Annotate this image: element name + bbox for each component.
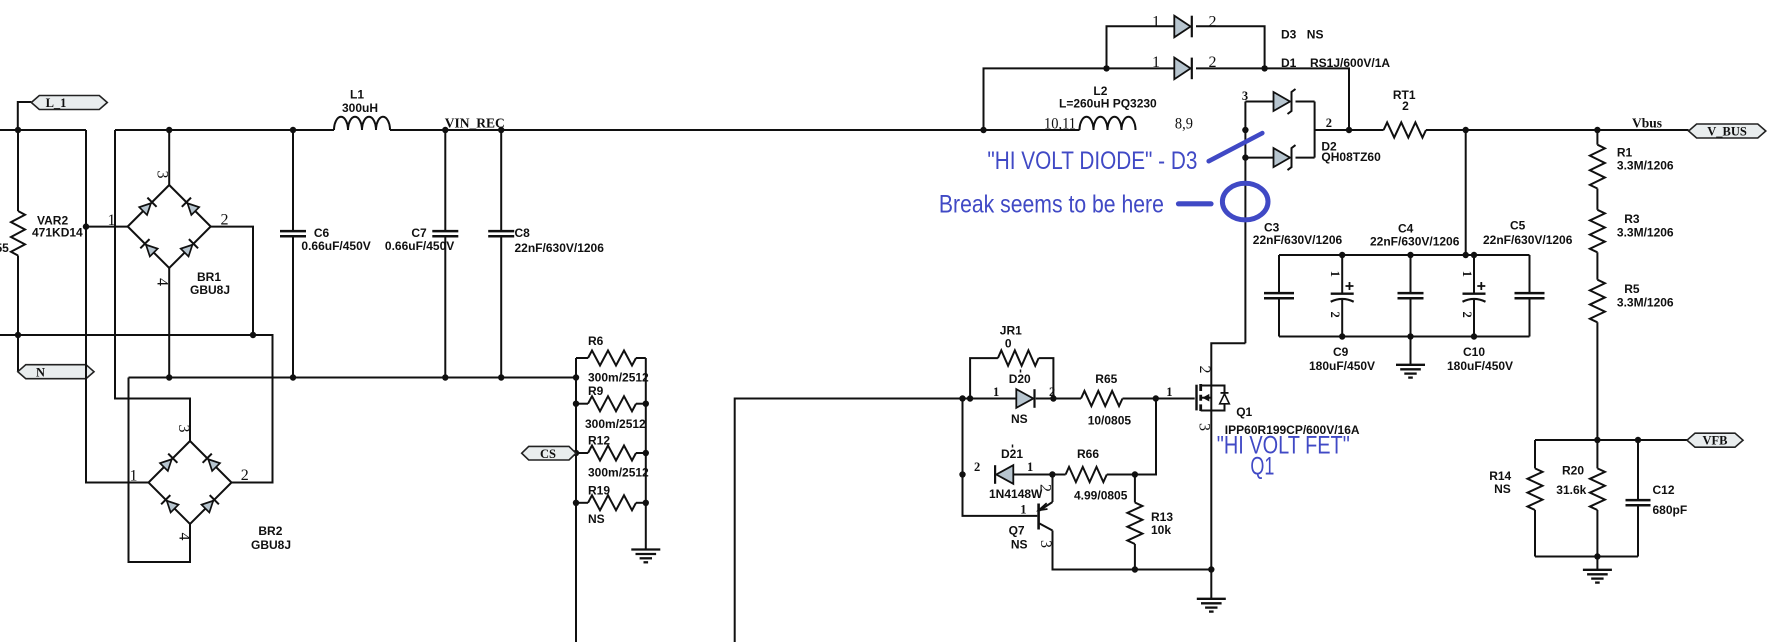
svg-text:10/0805: 10/0805	[1088, 414, 1132, 428]
svg-text:10k: 10k	[1151, 523, 1171, 537]
junction GND rail Q1	[1208, 566, 1214, 572]
svg-text:R20: R20	[1562, 464, 1584, 478]
wire D2 top join	[1296, 101, 1315, 103]
label L1	[342, 88, 378, 116]
svg-text:D20: D20	[1009, 372, 1031, 386]
junction R13 bottom	[1132, 566, 1138, 572]
label R5	[1617, 282, 1674, 310]
junction R20 bottom	[1594, 553, 1600, 559]
wire bus to BR2 pin 3	[115, 130, 190, 441]
wire gate drive feed	[735, 399, 1016, 642]
svg-text:22nF/630V/1206: 22nF/630V/1206	[1370, 235, 1460, 249]
svg-text:R14: R14	[1489, 469, 1511, 483]
svg-text:Q7: Q7	[1009, 524, 1025, 538]
svg-text:BR1: BR1	[197, 270, 221, 284]
label R6	[588, 334, 649, 385]
bridge BR2 outline	[149, 441, 232, 524]
label D21	[989, 445, 1043, 502]
svg-text:D1: D1	[1281, 56, 1297, 70]
capacitor C9	[1331, 255, 1354, 337]
bridge BR1 diode 2-3	[182, 198, 200, 216]
pin 10,11 L2	[1044, 116, 1076, 133]
pin 2 C10	[1460, 312, 1474, 318]
junction D1 branch	[980, 127, 986, 133]
bridge BR1 outline	[128, 185, 211, 268]
tag L_1	[31, 96, 107, 111]
diode D2 bottom half	[1245, 145, 1295, 170]
wire D2 bottom join	[1296, 157, 1315, 159]
junction C9 bottom	[1339, 333, 1345, 339]
pin 1 C10	[1460, 271, 1474, 277]
resistor R12	[576, 446, 646, 461]
svg-text:2: 2	[221, 212, 229, 229]
svg-text:L=260uH PQ3230: L=260uH PQ3230	[1059, 97, 1157, 111]
diode D3	[1174, 16, 1192, 38]
wire BR2 pin 4 loop	[129, 378, 191, 563]
capacitor C8	[488, 130, 514, 378]
svg-text:4: 4	[176, 533, 193, 541]
wire cap bank top	[1279, 254, 1530, 256]
svg-text:R66: R66	[1077, 447, 1099, 461]
svg-text:C4: C4	[1398, 222, 1414, 236]
svg-text:1: 1	[1152, 54, 1160, 71]
svg-text:NS: NS	[1307, 28, 1324, 42]
svg-text:55: 55	[0, 241, 9, 255]
annotation slash	[1209, 133, 1263, 161]
junction RT1 out	[1463, 127, 1469, 133]
pin 4 BR1	[154, 278, 171, 286]
ground under ladder	[631, 550, 660, 563]
pin 1 BR1	[108, 212, 116, 229]
pin 2 D1	[1209, 54, 1217, 71]
svg-text:R3: R3	[1624, 212, 1640, 226]
svg-text:C10: C10	[1463, 345, 1485, 359]
svg-text:VIN_REC: VIN_REC	[445, 116, 505, 131]
wire VFB bottom rail	[1535, 556, 1638, 558]
text fragment 55	[0, 241, 9, 255]
wire VFB row	[1535, 439, 1688, 441]
svg-text:1: 1	[1152, 14, 1160, 31]
wire L_1 tag stub	[18, 102, 32, 130]
wire ladder left vertical	[575, 358, 577, 642]
wire ladder right vertical	[645, 358, 647, 550]
svg-text:2: 2	[1037, 484, 1054, 492]
label Q1	[1225, 405, 1360, 437]
net label Vbus	[1632, 116, 1662, 131]
svg-text:2: 2	[1209, 14, 1217, 31]
ground under Q1	[1197, 570, 1226, 612]
junction Vbus/R1	[1594, 127, 1600, 133]
label R1	[1617, 146, 1674, 173]
pin 2 Q1	[1196, 366, 1213, 374]
label C9	[1309, 345, 1375, 373]
label C5	[1483, 219, 1573, 248]
plus C10	[1477, 282, 1485, 290]
resistor R1	[1590, 130, 1605, 210]
pin 2 D20	[1049, 385, 1055, 399]
label C8	[515, 226, 605, 255]
svg-text:NS: NS	[1494, 482, 1511, 496]
resistor JR1	[970, 350, 1053, 398]
svg-text:Q1: Q1	[1250, 453, 1274, 481]
svg-text:C5: C5	[1510, 219, 1526, 233]
svg-text:C12: C12	[1653, 483, 1675, 497]
wire cap bank bottom	[1279, 336, 1530, 338]
annotation text HI VOLT DIODE	[987, 147, 1197, 175]
pin 2 D2	[1326, 116, 1332, 130]
svg-text:3: 3	[1242, 89, 1248, 103]
junction ladder top-left	[573, 374, 579, 380]
transistor Q1	[1197, 384, 1230, 411]
svg-text:10,11: 10,11	[1044, 116, 1076, 133]
tag N	[18, 365, 94, 380]
plus C9	[1346, 282, 1354, 290]
resistor R14	[1528, 440, 1543, 557]
capacitor C7	[432, 130, 458, 378]
junction gate node	[1153, 395, 1159, 401]
svg-text:2: 2	[1460, 312, 1474, 318]
pin 4 BR2	[176, 533, 193, 541]
svg-text:2: 2	[1326, 116, 1332, 130]
wire drain to D2 node	[1244, 102, 1246, 344]
label R19	[588, 484, 610, 527]
junction Q7 collector node	[1049, 471, 1055, 477]
svg-text:2: 2	[974, 460, 980, 474]
annotation ellipse	[1222, 183, 1268, 220]
junction C4 bottom	[1407, 333, 1413, 339]
svg-text:L1: L1	[350, 88, 364, 102]
svg-text:1N4148W: 1N4148W	[989, 487, 1043, 501]
label R3	[1617, 212, 1674, 240]
label BR2	[251, 524, 291, 552]
label VAR2	[32, 214, 83, 240]
svg-text:1: 1	[1460, 271, 1474, 277]
label D2	[1321, 140, 1381, 165]
svg-text:22nF/630V/1206: 22nF/630V/1206	[515, 241, 605, 255]
junction R19 left	[573, 500, 579, 506]
svg-text:CS: CS	[540, 447, 556, 461]
wire RT1 down to caps	[1465, 130, 1467, 255]
bridge BR2 diode 4-1	[161, 495, 179, 513]
junction D2 lower	[1242, 154, 1248, 160]
svg-text:471KD14: 471KD14	[32, 226, 83, 240]
wire BR1 pin 2	[211, 227, 254, 335]
junction R12 left	[573, 450, 579, 456]
svg-text:QH08TZ60: QH08TZ60	[1321, 150, 1381, 164]
svg-text:2: 2	[1049, 385, 1055, 399]
svg-text:2: 2	[1328, 312, 1342, 318]
pin 2 C9	[1328, 312, 1342, 318]
svg-text:3.3M/1206: 3.3M/1206	[1617, 159, 1674, 173]
svg-text:31.6k: 31.6k	[1556, 483, 1586, 497]
svg-text:300uH: 300uH	[342, 101, 378, 115]
junction C8 bottom	[498, 374, 504, 380]
svg-text:300m/2512: 300m/2512	[585, 417, 646, 431]
pin 2 BR1	[221, 212, 229, 229]
wire D2 to RT1	[1315, 129, 1384, 131]
capacitor C10	[1463, 255, 1486, 337]
svg-text:2: 2	[1196, 366, 1213, 374]
diode D21	[995, 465, 1013, 484]
svg-text:Break seems to be here: Break seems to be here	[939, 191, 1164, 219]
svg-text:0: 0	[1005, 337, 1012, 351]
svg-text:3.3M/1206: 3.3M/1206	[1617, 296, 1674, 310]
pin 3 D2	[1242, 89, 1248, 103]
junction C12 top	[1635, 437, 1641, 443]
wire net N horizontal	[0, 335, 273, 483]
transistor Q7	[1039, 475, 1212, 570]
resistor R5	[1590, 280, 1605, 440]
wire main bus to L1	[115, 129, 334, 131]
svg-text:3: 3	[1037, 540, 1054, 548]
svg-text:R6: R6	[588, 334, 604, 348]
svg-text:R12: R12	[588, 434, 610, 448]
junction D1 to bus	[1346, 127, 1352, 133]
svg-text:22nF/630V/1206: 22nF/630V/1206	[1483, 233, 1573, 247]
svg-text:2: 2	[241, 467, 249, 484]
svg-text:NS: NS	[588, 512, 605, 526]
svg-text:Vbus: Vbus	[1632, 116, 1662, 131]
label D1 RS1J	[1281, 56, 1390, 70]
svg-text:Q1: Q1	[1236, 405, 1252, 419]
resistor R19	[576, 495, 646, 510]
tag VFB	[1687, 433, 1743, 448]
svg-text:D21: D21	[1001, 447, 1023, 461]
svg-text:C6: C6	[314, 226, 330, 240]
label R14	[1489, 469, 1511, 496]
svg-text:VFB: VFB	[1703, 434, 1728, 448]
pin 1 D1	[1152, 54, 1160, 71]
junction RT1 cap top	[1463, 252, 1469, 258]
junction C6 bottom	[290, 374, 296, 380]
svg-text:4.99/0805: 4.99/0805	[1074, 489, 1128, 503]
junction R12 right	[643, 450, 649, 456]
svg-text:R19: R19	[588, 484, 610, 498]
varistor VAR2	[11, 130, 25, 335]
pin 1 D20	[993, 385, 999, 399]
label L2	[1059, 84, 1157, 111]
label RT1	[1393, 88, 1416, 113]
capacitor C5	[1515, 255, 1545, 337]
label R13	[1151, 510, 1173, 537]
annotation text Q1 blue	[1250, 453, 1274, 481]
label R12	[588, 434, 649, 480]
svg-text:"HI VOLT FET": "HI VOLT FET"	[1217, 432, 1350, 460]
svg-text:3: 3	[154, 171, 171, 179]
resistor R6	[576, 351, 646, 366]
diode D1	[1174, 58, 1192, 80]
net label VIN_REC	[445, 116, 505, 131]
junction D21 branch	[959, 395, 965, 401]
svg-text:1: 1	[1166, 385, 1172, 399]
pin 1 BR2	[130, 468, 138, 485]
pin 2 D21	[974, 460, 980, 474]
label C4	[1370, 222, 1460, 249]
wire L_1 down to BR1 pin 1	[86, 130, 128, 227]
bridge BR2 diode 2-3	[203, 454, 221, 472]
bridge BR2 diode 1-3	[159, 454, 177, 472]
junction C7 top	[442, 127, 448, 133]
svg-text:C9: C9	[1333, 345, 1349, 359]
svg-text:V_BUS: V_BUS	[1707, 125, 1747, 139]
junction C8 top	[498, 127, 504, 133]
svg-text:3: 3	[175, 425, 192, 433]
svg-text:180uF/450V: 180uF/450V	[1447, 359, 1513, 373]
tag CS	[522, 446, 576, 461]
label R65	[1088, 372, 1132, 428]
junction L_1/VAR2	[15, 127, 21, 133]
junction JR1 branch left	[967, 395, 973, 401]
resistor R20	[1590, 440, 1605, 557]
junction D21 pin2	[959, 471, 965, 477]
junction R13 top	[1132, 471, 1138, 477]
junction C4 top	[1407, 252, 1413, 258]
wire BR1 pin 3	[168, 130, 170, 185]
svg-text:NS: NS	[1011, 412, 1028, 426]
svg-text:"HI VOLT DIODE" - D3: "HI VOLT DIODE" - D3	[987, 147, 1197, 175]
label R9	[585, 384, 646, 431]
resistor R9	[576, 396, 646, 411]
wire BR1 pin 4	[168, 268, 170, 378]
svg-text:R9: R9	[588, 384, 604, 398]
pin 3 Q1	[1196, 423, 1213, 431]
svg-text:GBU8J: GBU8J	[251, 538, 291, 552]
junction VAR2/N	[15, 332, 21, 338]
junction C10 top	[1471, 252, 1477, 258]
wire R65 to gate	[1123, 398, 1195, 400]
junction C6 top	[290, 127, 296, 133]
diode D20	[1016, 389, 1034, 408]
svg-text:C7: C7	[411, 226, 427, 240]
wire Q1 source	[1210, 411, 1212, 570]
capacitor C3	[1264, 255, 1294, 337]
annotation text HI VOLT FET	[1217, 432, 1350, 460]
wire D3 out	[1196, 26, 1265, 68]
tag V_BUS	[1689, 124, 1766, 139]
label D20	[1009, 370, 1031, 427]
bridge BR2 diode 4-2	[201, 495, 219, 513]
junction D2 bus	[1242, 127, 1248, 133]
wire bus to D1 branch	[984, 68, 1174, 130]
junction BR1 pin3 bus	[166, 127, 172, 133]
svg-text:2: 2	[1402, 99, 1409, 113]
pin 3 BR2	[175, 425, 192, 433]
junction C10 bottom	[1471, 333, 1477, 339]
label C7	[385, 226, 454, 253]
svg-text:1: 1	[130, 468, 138, 485]
wire shunt return line	[129, 377, 577, 379]
svg-text:R1: R1	[1617, 146, 1633, 160]
resistor R65	[1081, 391, 1123, 406]
resistor RT1	[1384, 122, 1426, 137]
svg-text:180uF/450V: 180uF/450V	[1309, 359, 1375, 373]
label D3 NS	[1281, 28, 1323, 42]
pin 1 Q1	[1166, 385, 1172, 399]
junction R9 left	[573, 401, 579, 407]
svg-text:N: N	[36, 366, 45, 380]
svg-text:4: 4	[154, 278, 171, 286]
svg-text:0.66uF/450V: 0.66uF/450V	[385, 239, 454, 253]
label BR1	[190, 270, 230, 297]
svg-text:JR1: JR1	[1000, 324, 1022, 338]
svg-text:GBU8J: GBU8J	[190, 283, 230, 297]
ground cap bank	[1396, 337, 1425, 378]
svg-text:300m/2512: 300m/2512	[588, 466, 649, 480]
wire D2 cathode join	[1314, 102, 1316, 158]
pin 1 D3	[1152, 14, 1160, 31]
bridge BR1 diode 1-3	[139, 198, 157, 216]
wire Q1 drain	[1211, 343, 1245, 385]
svg-text:8,9: 8,9	[1175, 116, 1193, 133]
diode D2 top half	[1245, 89, 1295, 114]
wire D20 to R65	[1036, 398, 1081, 400]
pin 2 D3	[1209, 14, 1217, 31]
svg-text:RS1J/600V/1A: RS1J/600V/1A	[1310, 56, 1390, 70]
label Q7	[1009, 524, 1028, 552]
label C10	[1447, 345, 1513, 373]
junction C9 top	[1339, 252, 1345, 258]
svg-text:R65: R65	[1095, 372, 1117, 386]
svg-text:680pF: 680pF	[1653, 503, 1688, 517]
junction R19 right	[643, 500, 649, 506]
inductor L1	[334, 117, 390, 130]
svg-text:D3: D3	[1281, 28, 1297, 42]
annotation text Break seems	[939, 191, 1164, 219]
pin 3 BR1	[154, 171, 171, 179]
wire through N tag	[85, 360, 87, 400]
label R20	[1556, 464, 1586, 498]
pin 1 D21	[1027, 460, 1033, 474]
wire D3 branch up	[1107, 26, 1174, 68]
capacitor C6	[280, 130, 306, 378]
svg-text:1: 1	[1328, 271, 1342, 277]
pin 1 Q7	[1020, 503, 1026, 517]
svg-text:R13: R13	[1151, 510, 1173, 524]
wire L_1 bus segment	[0, 129, 86, 131]
label C12	[1653, 483, 1688, 517]
wire D21 to R66	[1014, 474, 1053, 476]
svg-text:L_1: L_1	[46, 96, 67, 110]
resistor R13	[1127, 475, 1142, 570]
inductor L2	[1080, 117, 1136, 130]
pin 3 Q7	[1037, 540, 1054, 548]
capacitor C4	[1398, 255, 1424, 337]
svg-text:300m/2512: 300m/2512	[588, 371, 649, 385]
junction R20 top	[1594, 437, 1600, 443]
svg-text:BR2: BR2	[258, 524, 282, 538]
junction N/BR1 pin2	[250, 332, 256, 338]
wire bus L1 to L2	[390, 129, 1080, 131]
junction D3 branch	[1103, 65, 1109, 71]
ground under R20	[1583, 557, 1612, 583]
label R66	[1074, 447, 1128, 503]
junction D1 out	[1261, 65, 1267, 71]
wire D21 branch	[963, 399, 1038, 516]
wire VAR2 to N tag	[17, 335, 19, 371]
junction R9 right	[643, 401, 649, 407]
capacitor C12	[1626, 440, 1651, 557]
svg-text:1: 1	[1027, 460, 1033, 474]
junction BR1 pin4	[166, 374, 172, 380]
svg-text:22nF/630V/1206: 22nF/630V/1206	[1253, 233, 1343, 247]
svg-text:3.3M/1206: 3.3M/1206	[1617, 226, 1674, 240]
pin 1 C9	[1328, 271, 1342, 277]
bridge BR1 diode 4-1	[140, 239, 158, 257]
svg-text:1: 1	[1020, 503, 1026, 517]
junction L to BR1 pin1	[83, 223, 89, 229]
wire RT1 to Vbus	[1426, 129, 1689, 131]
svg-text:R5: R5	[1624, 282, 1640, 296]
